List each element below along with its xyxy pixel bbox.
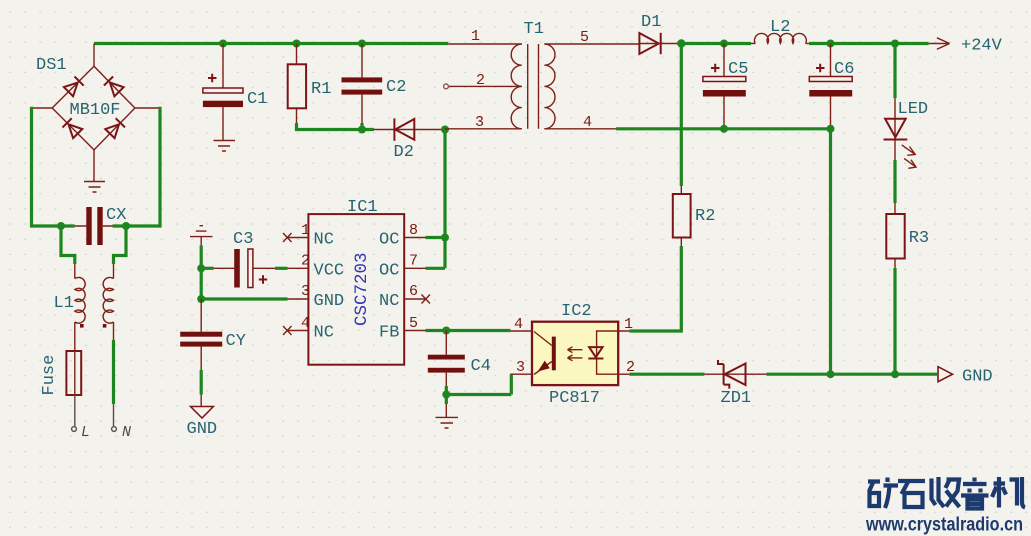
svg-text:www.crystalradio.cn: www.crystalradio.cn	[865, 514, 1023, 536]
wire left AC vertical	[32, 107, 75, 226]
watermark CJK	[868, 477, 1025, 509]
svg-text:D1: D1	[641, 13, 661, 32]
junction LED branch	[891, 40, 899, 48]
svg-text:GND: GND	[187, 420, 218, 439]
svg-text:CSC7203: CSC7203	[352, 252, 372, 326]
svg-text:IC2: IC2	[561, 302, 592, 321]
ground earth under C1	[214, 141, 236, 152]
svg-text:4: 4	[514, 316, 523, 333]
wire C3 to VCC	[275, 267, 288, 270]
LED	[884, 44, 917, 169]
svg-text:C5: C5	[728, 60, 748, 79]
wire R3 to gnd rail	[893, 268, 896, 374]
junction C5 top	[720, 40, 728, 48]
junction C5 bottom	[720, 125, 728, 133]
wire FB row	[426, 329, 511, 332]
wire N tail	[113, 404, 115, 427]
svg-text:L: L	[81, 424, 90, 441]
svg-text:NC: NC	[314, 324, 334, 343]
svg-text:2: 2	[476, 72, 485, 89]
ground earth under C4	[436, 417, 459, 428]
svg-text:OC: OC	[379, 261, 399, 280]
wire LED to R3	[893, 160, 896, 203]
wire C4 bottom	[446, 374, 511, 404]
svg-text:N: N	[122, 424, 131, 441]
ground earth inverted above C3	[190, 226, 213, 246]
svg-text:C6: C6	[834, 60, 854, 79]
svg-text:IC1: IC1	[347, 198, 378, 217]
terminal L	[72, 427, 77, 432]
wire gnd stub	[200, 395, 202, 407]
junction C6 top	[827, 40, 835, 48]
junction rail x895	[891, 370, 899, 378]
diode D2	[374, 118, 445, 140]
svg-text:OC: OC	[379, 231, 399, 250]
svg-text:C3: C3	[233, 230, 253, 249]
wire step down right	[114, 226, 127, 264]
junction D1 out	[677, 39, 685, 47]
optocoupler IC2 PC817	[510, 322, 629, 385]
wire gnd drop	[200, 245, 203, 299]
svg-text:GND: GND	[314, 292, 345, 311]
power arrow GND	[938, 367, 953, 382]
svg-text:2: 2	[301, 253, 310, 270]
junction C6 bottom corner	[827, 125, 835, 133]
svg-text:CY: CY	[226, 332, 246, 351]
svg-text:L2: L2	[770, 18, 790, 37]
capacitor C1	[203, 44, 243, 141]
capacitor C4	[428, 331, 465, 387]
svg-text:Fuse: Fuse	[40, 355, 59, 396]
junction GND row	[197, 295, 205, 303]
svg-text:T1: T1	[524, 20, 544, 39]
wire top rail primary	[94, 42, 448, 45]
svg-text:5: 5	[409, 315, 418, 332]
ground earth under bridge	[84, 182, 105, 193]
wire T1 pin1 stub	[448, 43, 522, 45]
zener ZD1	[704, 360, 766, 389]
terminal N	[112, 427, 117, 432]
wire R1 C2 bottom	[297, 123, 375, 130]
wire step down left	[61, 226, 75, 264]
svg-text:LED: LED	[898, 100, 929, 119]
wire C3 left	[201, 267, 214, 270]
transformer T1	[444, 44, 640, 129]
wire bridge top stub	[93, 44, 95, 67]
junction D2 T1pin3	[441, 126, 449, 134]
svg-text:3: 3	[475, 114, 484, 131]
svg-text:DS1: DS1	[36, 56, 67, 75]
junction pin8	[441, 234, 449, 242]
svg-text:L1: L1	[54, 294, 74, 313]
svg-text:1: 1	[624, 316, 633, 333]
svg-text:8: 8	[409, 222, 418, 239]
svg-text:NC: NC	[314, 231, 334, 250]
svg-text:R3: R3	[909, 229, 929, 248]
fuse Fuse	[66, 351, 81, 427]
capacitor CX	[75, 207, 113, 245]
junction C4 top	[442, 327, 450, 335]
wire top rail secondary	[681, 42, 751, 45]
junction CX left	[57, 222, 65, 230]
resistor R2	[673, 186, 691, 246]
resistor R1	[288, 44, 306, 124]
svg-text:7: 7	[409, 253, 418, 270]
svg-text:R1: R1	[311, 80, 331, 99]
svg-text:GND: GND	[962, 368, 993, 387]
svg-text:+24V: +24V	[961, 37, 1003, 56]
junction CX right	[122, 222, 130, 230]
wire secondary return rail	[616, 127, 831, 130]
svg-text:C4: C4	[471, 357, 491, 376]
capacitor C3	[214, 249, 275, 288]
svg-text:5: 5	[580, 29, 589, 46]
inductor L2	[751, 33, 809, 43]
svg-text:NC: NC	[379, 292, 399, 311]
junction R1 top	[293, 40, 301, 48]
wire gnd rail	[766, 373, 937, 376]
wire return vertical	[829, 129, 832, 374]
junction rail x830	[827, 370, 835, 378]
junction C1 top	[219, 40, 227, 48]
svg-text:3: 3	[516, 359, 525, 376]
resistor R3	[886, 203, 904, 268]
IC1 CSC7203	[283, 214, 430, 365]
inductor L1 common mode choke	[75, 264, 114, 351]
wire R2 to IC2 pin1	[629, 246, 681, 331]
wire CY to gnd	[200, 370, 203, 395]
capacitor CY	[180, 299, 222, 370]
svg-text:1: 1	[301, 222, 310, 239]
wire D2 to IC1 vertical	[443, 130, 446, 269]
wire gnd stub C4	[445, 404, 447, 417]
wire pin8	[426, 236, 446, 239]
wire right AC vertical	[113, 107, 161, 226]
capacitor C2	[342, 44, 383, 124]
svg-text:CX: CX	[106, 206, 126, 225]
svg-text:1: 1	[471, 28, 480, 45]
junction C3 row	[197, 264, 205, 272]
ground triangle GND	[191, 407, 214, 419]
power arrow +24V	[929, 38, 950, 50]
svg-text:ZD1: ZD1	[721, 389, 752, 408]
bridge rectifier DS1	[30, 66, 160, 181]
svg-text:C2: C2	[386, 78, 406, 97]
svg-text:4: 4	[301, 315, 310, 332]
svg-text:3: 3	[301, 283, 310, 300]
wire D1 to R2 vertical	[680, 44, 683, 187]
diode D1	[639, 33, 680, 54]
svg-text:R2: R2	[695, 207, 715, 226]
capacitor C6	[809, 44, 852, 129]
wire T1 pin3 stub	[445, 128, 522, 130]
svg-text:PC817: PC817	[549, 389, 600, 408]
junction C4 bottom	[442, 391, 450, 399]
svg-text:MB10F: MB10F	[70, 101, 121, 120]
capacitor C5	[703, 44, 746, 129]
junction C2 top	[358, 40, 366, 48]
svg-text:6: 6	[409, 283, 418, 300]
svg-text:C1: C1	[247, 90, 267, 109]
wire pin7 corner	[426, 267, 446, 270]
wire GND row to pin3	[201, 297, 287, 300]
svg-text:VCC: VCC	[314, 261, 345, 280]
wire IC2 pin2 to ZD1	[629, 373, 704, 376]
wire N segment	[112, 340, 115, 404]
svg-text:D2: D2	[394, 143, 414, 162]
svg-text:FB: FB	[379, 324, 399, 343]
wire after L2	[809, 42, 929, 45]
junction R1C2D2	[358, 126, 366, 134]
svg-text:4: 4	[583, 114, 592, 131]
